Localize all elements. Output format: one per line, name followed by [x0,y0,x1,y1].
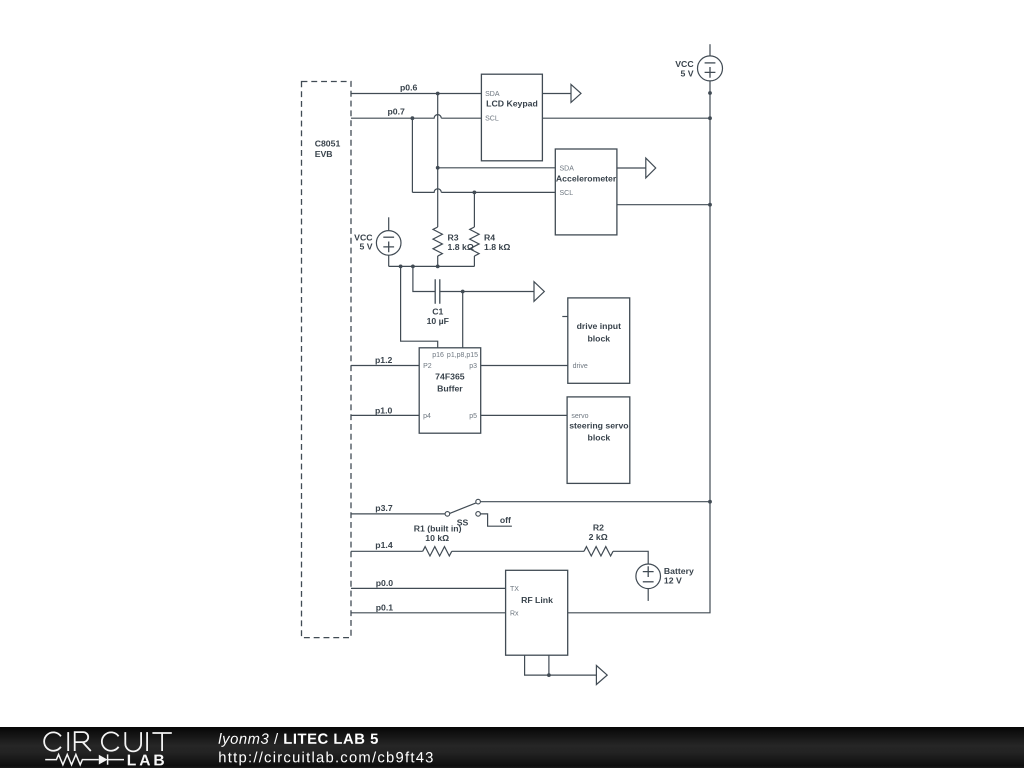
junction rail c [436,265,440,269]
svg-text:SS: SS [457,517,469,527]
steering servo block U7 [567,397,630,484]
logo letter R [75,732,91,751]
wire rail to C1 [413,266,435,291]
svg-text:SCL: SCL [560,190,574,197]
svg-text:http://circuitlab.com/cb9ft43: http://circuitlab.com/cb9ft43 [218,750,434,766]
svg-text:Accelerometer: Accelerometer [556,174,617,184]
svg-text:RF Link: RF Link [521,595,553,605]
wire R3 bottom [437,256,439,266]
junction p0.7 [411,116,415,120]
logo letter C [44,732,61,750]
logo letter C2 [102,732,119,750]
wire p3.7 [351,513,445,515]
wire right vertical bus [568,81,710,613]
wire LCD SCL out to bus [542,117,710,119]
wire R2 to battery [613,551,648,564]
capacitor C1 plates [435,279,440,303]
wire accel SDA [438,167,556,169]
resistor R3 [433,227,442,256]
wire p0.7 (with hop over R3 wire) [351,115,481,119]
svg-text:p3: p3 [469,363,477,370]
wire R4 bottom [473,256,475,266]
svg-text:LCD Keypad: LCD Keypad [486,98,538,108]
drive input block stub pin [562,316,568,318]
svg-text:block: block [588,433,611,443]
net flag triangle after C1 [534,282,544,302]
switch SS contact left [445,512,450,517]
wire p1.0 [351,414,419,416]
wire p0.6 [351,93,481,95]
wire rail to buffer pin p16 [401,266,438,347]
logo letter I2 [146,732,148,751]
svg-text:steering servo: steering servo [569,420,628,430]
V3 minus sign [643,581,654,583]
svg-text:p3.7: p3.7 [375,503,393,513]
svg-text:SCL: SCL [485,116,499,123]
svg-text:p5: p5 [469,413,477,420]
voltage source V2 VCC 5V circle [376,231,401,256]
wire accel SCL (with hop over R3 wire) [412,189,555,193]
svg-text:EVB: EVB [315,149,333,159]
svg-text:R2: R2 [593,523,604,533]
wire RF bottom pin 2 [549,655,596,675]
junction C1 out [461,290,465,294]
svg-text:Rx: Rx [510,610,519,617]
junction bus accel SCL [708,203,712,207]
wire V2 bottom stem [388,255,390,266]
pin labels (small gray) [423,91,589,617]
switch SS contact lower right [476,512,481,517]
svg-text:5 V: 5 V [681,68,694,78]
voltage source V1 VCC 5V (top right) stem [709,44,711,56]
wire p0.1 [351,612,506,614]
svg-text:5 V: 5 V [359,242,372,252]
wire R1 to R2 [452,550,584,552]
wire accel SDA out [617,167,646,169]
svg-text:C8051: C8051 [315,139,341,149]
svg-text:p16: p16 [432,352,444,359]
svg-text:1.8 kΩ: 1.8 kΩ [484,242,510,252]
svg-text:R1 (built in): R1 (built in) [414,523,462,533]
svg-text:12 V: 12 V [664,576,682,586]
svg-text:TX: TX [510,586,519,593]
logo letter I [67,732,69,751]
junction rail b [411,265,415,269]
svg-text:2 kΩ: 2 kΩ [589,532,608,542]
svg-text:off: off [500,515,511,525]
net flag triangle accel SDA [646,158,656,178]
voltage source V1 circle [698,56,723,81]
svg-text:p0.0: p0.0 [376,578,394,588]
wire RF bottom pin 1 [525,655,549,675]
svg-text:p0.1: p0.1 [376,603,394,613]
junction RF bottom [547,673,551,677]
svg-text:R3: R3 [448,232,459,242]
74F365 Buffer block U5 [419,348,481,433]
wire R4 top [473,192,475,227]
svg-text:Buffer: Buffer [437,384,463,394]
svg-text:R4: R4 [484,232,495,242]
wire p0.7 vertical to SCL [411,118,413,192]
Accelerometer block U4 [555,149,617,235]
svg-text:drive: drive [573,363,588,370]
svg-text:drive input: drive input [577,321,622,331]
junction bus top [708,91,712,95]
svg-text:p1,p8,p15: p1,p8,p15 [447,352,478,359]
switch SS lever [450,503,476,514]
svg-text:p0.6: p0.6 [400,82,418,92]
CircuitLab logo CIRCUIT letters [44,732,172,751]
svg-text:p1.0: p1.0 [375,405,393,415]
svg-text:Battery: Battery [664,566,694,576]
junction accel SCL/R4 [473,191,477,195]
wire switch off stub [480,514,512,526]
wire p3 to drive block [481,365,568,367]
wire accel SCL out to bus [617,204,710,206]
wire p0.0 [351,587,506,589]
wire battery bottom stub [647,589,649,601]
V1 minus sign [705,62,716,64]
logo letter T [152,733,171,751]
svg-text:1.8 kΩ: 1.8 kΩ [448,242,474,252]
V2 plus sign [383,242,394,253]
junction rail a [399,265,403,269]
V2 minus sign [383,236,394,238]
labels: node names (bold) [315,59,695,613]
resistor R2 [584,547,613,556]
LCD Keypad block U3 [481,74,542,161]
wire p5 to steering block [481,414,567,416]
junction p0.6/R3 [436,92,440,96]
svg-text:10 kΩ: 10 kΩ [425,533,449,543]
drive input block U6 [568,298,630,383]
switch SS contact upper right [476,499,481,504]
wire switch to bus [480,501,710,503]
svg-text:p1.2: p1.2 [375,355,393,365]
svg-text:block: block [587,334,610,344]
wire C1 node to buffer p1,p8,p15 [462,292,464,348]
net flag triangle LCD SDA [571,84,581,102]
wire p1.4 [351,550,423,552]
V3 plus sign [643,566,654,577]
svg-text:P2: P2 [423,363,432,370]
RF Link block U8 [506,570,568,655]
wire VCC rail [389,265,475,267]
svg-text:servo: servo [571,413,588,420]
logo resistor-diode art [45,754,124,764]
svg-text:SDA: SDA [485,91,500,98]
svg-text:p1.4: p1.4 [375,540,393,550]
junction accel SDA/R3 [436,166,440,170]
svg-text:p4: p4 [423,413,431,420]
logo letter U [125,732,141,751]
C8051 EVB block (dashed) [302,82,352,638]
junction switch line bus [708,500,712,504]
wire C1 right [440,291,534,293]
resistor R1 (built in) [423,547,452,556]
V1 plus sign [705,67,716,78]
voltage source V2 VCC 5V stem top [388,217,390,230]
resistor R4 [470,227,479,256]
wire LCD SDA out [542,93,570,95]
svg-text:74F365: 74F365 [435,372,465,382]
wire p1.2 [351,365,419,367]
svg-text:lyonm3 / LITEC LAB 5: lyonm3 / LITEC LAB 5 [218,732,379,748]
wire R3 top [437,94,439,228]
svg-text:LAB: LAB [127,752,168,768]
battery V3 circle [636,564,661,589]
svg-text:10 µF: 10 µF [427,316,449,326]
footer bar [0,727,1024,768]
net flag triangle RF bottom [596,666,607,685]
junction bus SCL [708,116,712,120]
svg-text:C1: C1 [432,307,443,317]
svg-text:p0.7: p0.7 [388,107,406,117]
svg-text:SDA: SDA [560,165,575,172]
